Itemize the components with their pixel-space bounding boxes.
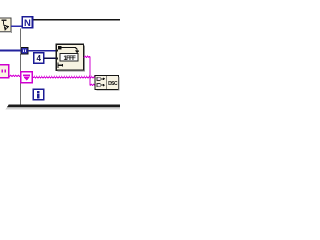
numeric constant 4	[34, 53, 44, 64]
wire (string squiggle, constant to converter)	[10, 75, 23, 77]
converter node (magenta, down-arrow) on left border	[21, 72, 33, 83]
wire (string-array squiggle, converter to DSC icon)	[33, 77, 96, 79]
svg-text:N: N	[24, 18, 31, 29]
subVI icon U2 (top-left, clipped)	[0, 18, 12, 33]
for-loop top border	[33, 19, 120, 20]
for-loop left border	[20, 29, 21, 48]
tunnel (left border, numeric)	[21, 47, 28, 54]
svg-text:1FFF: 1FFF	[64, 56, 77, 62]
subVI icon U3 (clock / wait)	[56, 44, 85, 71]
wire (magenta squiggle into DSC icon lower input)	[90, 84, 95, 86]
wire (magenta, subVI U3 output down)	[84, 56, 90, 57]
iteration terminal i	[33, 89, 43, 99]
svg-text:4: 4	[36, 54, 41, 63]
wire (blue, through tunnel to subVI)	[0, 50, 21, 52]
wire (4 to subVI)	[44, 58, 57, 59]
svg-text:DSC: DSC	[108, 81, 118, 87]
wire (blue, icon to N terminal)	[11, 26, 22, 28]
string constant (empty, clipped at left)	[0, 65, 9, 78]
count terminal N	[22, 17, 32, 29]
subVI icon U4 (DSC write, right edge)	[95, 76, 119, 91]
for-loop bottom border	[6, 105, 120, 109]
